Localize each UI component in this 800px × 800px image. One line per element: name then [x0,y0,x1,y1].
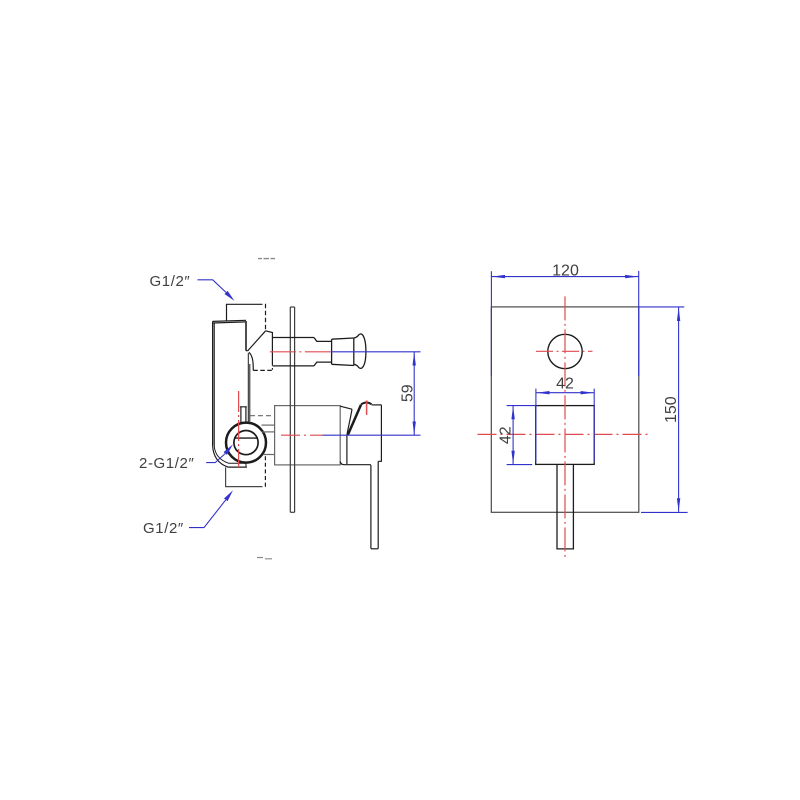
svg-text:42: 42 [556,376,574,393]
svg-text:G1/2″: G1/2″ [143,520,184,537]
svg-text:150: 150 [663,396,680,423]
svg-text:59: 59 [399,384,416,402]
svg-text:42: 42 [498,426,515,444]
svg-text:120: 120 [552,262,579,279]
svg-text:G1/2″: G1/2″ [150,273,191,290]
svg-text:2-G1/2″: 2-G1/2″ [139,455,194,472]
